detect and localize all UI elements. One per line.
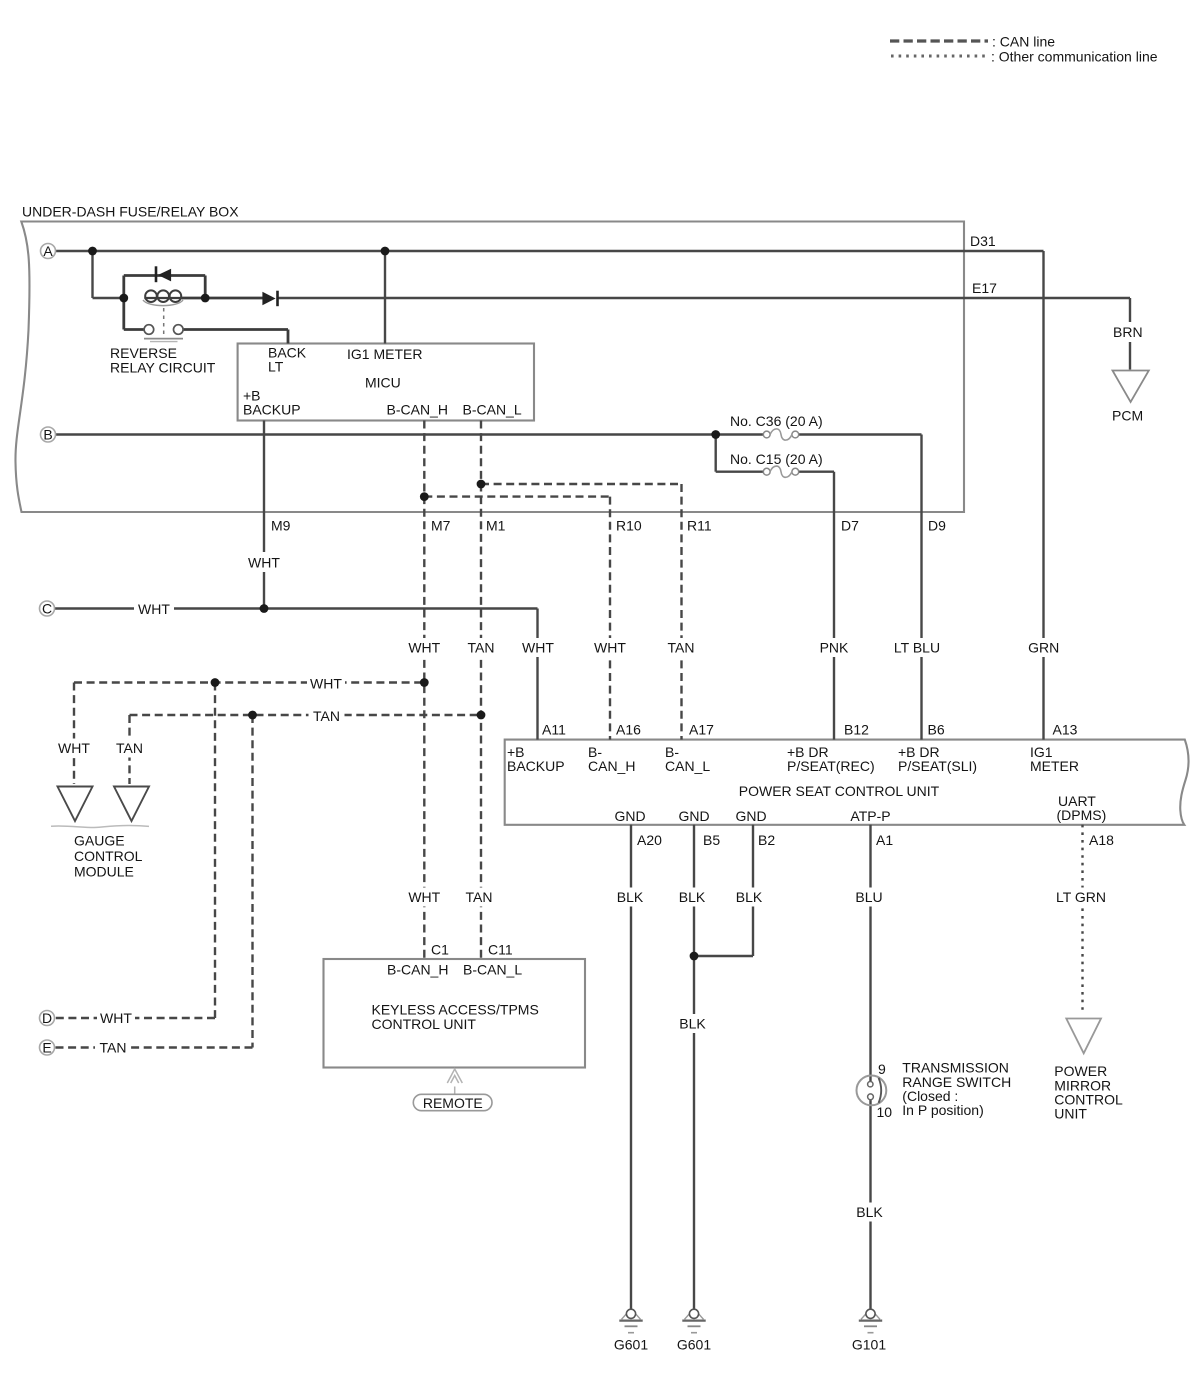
wire label TAN (C11) [461,888,497,907]
svg-text:LT BLU: LT BLU [894,640,940,656]
reverse relay coil-to-contact dashed link [163,308,165,336]
wire CAN TAN row dashed horizontal [130,714,482,716]
svg-text:B6: B6 [928,722,945,738]
svg-text:ATP-P: ATP-P [850,808,890,824]
svg-text:WHT: WHT [594,640,626,656]
wire label WHT (gauge) [55,739,93,758]
wire label WHT (C row) [134,599,174,619]
svg-text:GND: GND [678,808,709,824]
svg-text:POWER SEAT CONTROL UNIT: POWER SEAT CONTROL UNIT [739,783,940,799]
svg-text:BLK: BLK [856,1204,883,1220]
wire label WHT (R10/A16) [591,638,629,657]
svg-text:M9: M9 [271,518,291,534]
reverse relay contact circle left [144,325,154,335]
diode to E17 (pointing right) [262,292,275,306]
svg-text:GND: GND [614,808,645,824]
junction TAN row / node E drop [248,711,257,720]
svg-text:GAUGE: GAUGE [74,833,125,849]
junction A row / IG1 METER [381,247,390,256]
reverse relay coil [144,297,182,299]
wire E17 row from diode to PCM corner [278,297,1131,299]
svg-text:PCM: PCM [1112,408,1143,424]
node B connector circle [41,427,56,442]
svg-text:CONTROL UNIT: CONTROL UNIT [372,1016,477,1032]
junction A row / relay feed [88,247,97,256]
gauge control module brace [51,826,149,828]
junction relay loop left [119,294,128,303]
svg-text:MICU: MICU [365,375,401,391]
reverse relay loop left vertical [122,276,125,330]
svg-text:TAN: TAN [668,640,695,656]
wire fuse C15 branch horizontal [716,471,764,473]
transmission range switch blade [879,1078,882,1103]
wire CAN R10/A16 dashed vertical [609,497,611,740]
wire label PNK (D7/B12) [816,638,852,657]
wire CAN node E dashed vertical [251,715,253,1048]
wire label WHT (M9) [245,552,283,572]
svg-text:G601: G601 [677,1337,711,1353]
reverse relay switch branch horizontal left [124,328,145,331]
node C connector circle [40,601,55,616]
svg-text:A16: A16 [616,722,641,738]
svg-text:A1: A1 [876,832,893,848]
svg-text:R10: R10 [616,518,642,534]
svg-text:B12: B12 [844,722,869,738]
svg-text:GND: GND [735,808,766,824]
svg-text:REMOTE: REMOTE [423,1095,483,1111]
svg-text:P/SEAT(SLI): P/SEAT(SLI) [898,758,977,774]
wire CAN WHT row dashed horizontal to gauge module [74,681,424,683]
svg-text:D31: D31 [970,233,996,249]
wire M9 +B BACKUP vertical from MICU to C row [263,421,265,609]
wire WHT vertical to PSCU pin A11 [536,609,538,740]
wire after fuse C15 [799,471,834,473]
remote pill [413,1094,492,1110]
reverse relay movable contact bars [144,338,183,340]
svg-text:E17: E17 [972,280,997,296]
wire CAN node D row dashed horizontal [55,1017,216,1019]
gauge control module arrow TAN [114,787,149,822]
junction TAN row / M1 [477,711,486,720]
svg-text:RELAY CIRCUIT: RELAY CIRCUIT [110,360,216,376]
wire GND B5 vertical to G601 [693,825,695,1310]
reverse relay diode branch top [124,274,205,277]
svg-text:TAN: TAN [468,640,495,656]
reverse relay contact circle right [174,325,184,335]
wire CAN node E row dashed horizontal [55,1046,253,1048]
svg-text:C11: C11 [488,942,513,958]
wire relay feed horizontal [93,297,124,299]
MICU box [238,344,534,421]
wire ATP-P A1 vertical to switch [869,825,871,1082]
wire label TAN (gauge) [112,739,148,758]
svg-text:WHT: WHT [408,640,440,656]
svg-text:B2: B2 [758,832,775,848]
wire label WHT (M7) [405,638,443,657]
gauge control module arrow WHT [58,787,93,822]
wire label BLK (G101) [851,1203,889,1222]
svg-text:: CAN line: : CAN line [992,34,1055,50]
wire label WHT (A11) [519,638,557,657]
svg-text:TAN: TAN [116,740,143,756]
svg-text:P/SEAT(REC): P/SEAT(REC) [787,758,875,774]
svg-text:B-CAN_H: B-CAN_H [387,962,448,978]
transmission range switch contact 10 [868,1094,874,1100]
ground G101 (A1) [852,1309,886,1352]
wire D31/GRN vertical to PSCU pin A13 [1042,251,1044,740]
junction WHT row / node D drop [211,678,220,687]
svg-text:BLK: BLK [679,889,706,905]
svg-text:BACKUP: BACKUP [507,758,565,774]
svg-text:BLK: BLK [617,889,644,905]
wire UART A18 dotted vertical to power mirror [1081,825,1083,1012]
wire GND B2 vertical [752,825,754,956]
ground G601 (B5) [677,1309,711,1352]
junction C row / M9 [260,604,269,613]
wire B row after fuse C36 [799,433,922,435]
wire node C row horizontal [55,607,538,609]
wire label BRN [1111,322,1149,342]
wire relay feed vertical from A row [91,251,93,298]
fuse No. C15 symbol [763,468,770,475]
wire GND A20 vertical to G601 [630,825,632,1310]
wire label GRN (A13) [1026,638,1063,657]
svg-text:GRN: GRN [1028,640,1059,656]
svg-text:B5: B5 [703,832,720,848]
svg-text:TAN: TAN [313,708,340,724]
wire CAN B-CAN_L M1/C11 dashed vertical [480,421,482,960]
wire node B row horizontal [56,433,764,435]
remote arrow [447,1069,462,1083]
svg-text:B-CAN_L: B-CAN_L [463,962,522,978]
wire label BLK (B5 lower) [674,1014,712,1033]
wire node A row horizontal (to D31 corner) [56,250,1044,252]
wire D7 vertical to PSCU pin B12 [833,472,835,740]
wire CAN gauge WHT dashed vertical [73,683,75,785]
wire BACK LT vertical into MICU [287,330,290,344]
svg-text:WHT: WHT [522,640,554,656]
svg-text:WHT: WHT [100,1010,132,1026]
svg-text:G101: G101 [852,1337,886,1353]
svg-text:CAN_H: CAN_H [588,758,635,774]
junction WHT row / M7 [420,678,429,687]
svg-text:UNIT: UNIT [1054,1106,1087,1122]
svg-text:M1: M1 [486,518,506,534]
svg-text:A13: A13 [1053,722,1078,738]
wire label TAN (node E row) [95,1038,131,1057]
svg-text:D: D [42,1010,52,1026]
wire label TAN (TAN row) [309,707,345,726]
svg-text:G601: G601 [614,1337,648,1353]
svg-text:(DPMS): (DPMS) [1057,807,1107,823]
svg-text:LT GRN: LT GRN [1056,889,1106,905]
svg-text:BACKUP: BACKUP [243,402,301,418]
svg-text:PNK: PNK [820,640,849,656]
svg-text:WHT: WHT [310,676,342,692]
wire label TAN (M1) [463,638,499,657]
wire CAN gauge TAN dashed vertical [128,715,130,784]
under-dash fuse/relay box outline (torn left edge) [15,222,964,513]
svg-text:B: B [43,426,52,442]
svg-text:D9: D9 [928,518,946,534]
svg-text:E: E [42,1039,51,1055]
svg-text:D7: D7 [841,518,859,534]
wire fuse C15 branch vertical [715,435,717,472]
wire label LT BLU (D9/B6) [893,638,943,657]
wire label BLK (B2) [730,888,768,907]
svg-text:UNDER-DASH FUSE/RELAY BOX: UNDER-DASH FUSE/RELAY BOX [22,204,239,220]
wire CAN R11 branch horizontal dashed [481,483,682,485]
node D connector circle [40,1011,55,1026]
svg-text:: Other communication line: : Other communication line [991,49,1158,65]
reverse relay loop right vertical [204,276,207,299]
wire label WHT (C1) [405,888,443,907]
reverse relay diode (pointing left) [155,266,158,282]
wire label TAN (R11/A17) [663,638,699,657]
node E connector circle [40,1040,55,1055]
wire CAN B-CAN_H M7/C1 dashed vertical [423,421,425,960]
wire IG1 METER drop from A row to MICU [384,251,386,344]
wire GND B2 to B5 join horizontal [694,955,753,957]
junction B-CAN_L / R11 branch [477,480,486,489]
wire switch to G101 vertical [869,1100,871,1310]
ground G601 (A20) [614,1309,648,1352]
legend CAN line sample [890,39,988,42]
wire label WHT (WHT row) [307,674,345,693]
junction B row / fuse C15 branch [711,430,720,439]
reverse relay switch branch horizontal right to BACK LT [183,328,288,331]
svg-text:9: 9 [878,1061,886,1077]
svg-text:C1: C1 [431,942,449,958]
svg-text:C: C [42,600,52,616]
svg-text:BLU: BLU [855,889,882,905]
svg-text:CONTROL: CONTROL [74,848,143,864]
legend other communication line sample [891,55,987,58]
junction relay loop right [201,294,210,303]
svg-text:IG1 METER: IG1 METER [347,346,422,362]
svg-text:A17: A17 [689,722,714,738]
svg-text:R11: R11 [687,518,712,534]
svg-text:A18: A18 [1089,832,1114,848]
junction B5 / B2 [690,952,699,961]
junction B-CAN_H / R10 branch [420,492,429,501]
svg-text:WHT: WHT [138,601,170,617]
power seat control unit box (torn right edge) [505,740,1189,825]
svg-text:WHT: WHT [248,555,280,571]
wire CAN R11/A17 dashed vertical [680,484,682,740]
wire label LT GRN (A18) [1055,888,1107,907]
svg-text:A: A [43,243,53,259]
wire E17 vertical to PCM arrow [1129,298,1131,370]
transmission range switch contact 9 [868,1082,873,1087]
PCM arrow (BRN destination) [1113,371,1149,403]
wire label BLU (A1) [850,888,888,907]
transmission range switch circle [857,1076,887,1106]
keyless access/TPMS control unit box [324,959,586,1068]
svg-text:No. C15 (20 A): No. C15 (20 A) [730,451,823,467]
wire CAN R10 branch horizontal dashed [424,495,610,497]
reverse relay coil branch wire [182,297,263,300]
fuse No. C36 symbol [763,431,770,438]
svg-text:METER: METER [1030,758,1079,774]
svg-text:B-CAN_L: B-CAN_L [463,402,522,418]
svg-text:WHT: WHT [58,740,90,756]
svg-text:MODULE: MODULE [74,864,134,880]
wire label WHT (node D row) [97,1009,135,1028]
wire CAN node D dashed vertical [214,683,216,1019]
svg-text:A11: A11 [542,722,566,738]
svg-text:In P position): In P position) [902,1102,983,1118]
svg-text:B-CAN_H: B-CAN_H [387,402,448,418]
wire label BLK (A20) [611,888,649,907]
svg-text:WHT: WHT [408,889,440,905]
wire label BLK (B5) [673,888,711,907]
power mirror control unit arrow [1066,1019,1101,1054]
svg-text:BLK: BLK [736,889,763,905]
svg-text:CAN_L: CAN_L [665,758,710,774]
svg-text:M7: M7 [431,518,451,534]
wire D9 vertical to PSCU pin B6 [920,435,922,740]
svg-text:TAN: TAN [100,1040,127,1056]
node A connector circle [41,244,56,259]
svg-text:TAN: TAN [466,889,493,905]
svg-text:BLK: BLK [679,1016,706,1032]
svg-text:No. C36 (20 A): No. C36 (20 A) [730,413,823,429]
svg-text:10: 10 [877,1104,893,1120]
svg-text:A20: A20 [637,832,662,848]
svg-text:LT: LT [268,359,284,375]
svg-text:BRN: BRN [1113,324,1143,340]
